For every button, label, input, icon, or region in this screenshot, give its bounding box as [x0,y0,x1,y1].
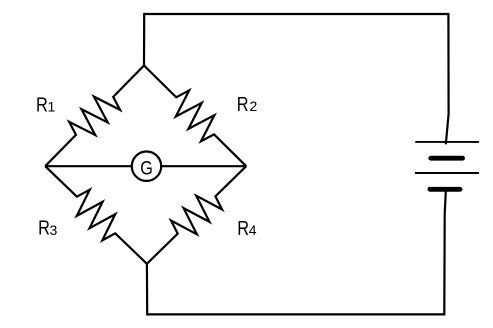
svg-text:3: 3 [50,222,58,238]
svg-text:G: G [140,159,153,180]
svg-text:R: R [237,94,249,116]
svg-text:4: 4 [249,222,257,238]
svg-text:R: R [38,218,50,240]
svg-text:R: R [237,218,249,240]
svg-text:1: 1 [48,98,56,114]
svg-text:2: 2 [250,98,258,114]
svg-text:R: R [36,94,48,116]
